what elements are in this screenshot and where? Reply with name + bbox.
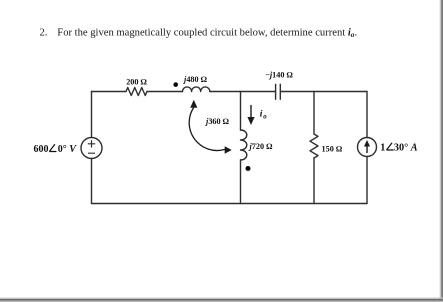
label 1 angle 30 A source value <box>380 142 417 153</box>
left branch lower wire <box>91 159 93 204</box>
right branch upper wire <box>366 92 368 138</box>
wire capacitor to top-right <box>281 91 368 93</box>
svg-text:For the given magnetically cou: For the given magnetically coupled circu… <box>57 27 357 39</box>
150 ohm branch upper wire <box>313 92 315 135</box>
page bottom border shadow <box>0 298 443 299</box>
left branch upper wire <box>91 92 93 138</box>
mutual coupling curved arrow j360 <box>189 100 232 154</box>
svg-text:j720 Ω: j720 Ω <box>248 142 274 151</box>
page right border shadow <box>440 0 441 302</box>
current io arrow <box>247 105 254 125</box>
resistor R 200ohm <box>126 88 147 96</box>
svg-text:−j140 Ω: −j140 Ω <box>265 71 293 80</box>
inductor j720 <box>241 130 247 160</box>
svg-text:1: 1 <box>380 142 385 153</box>
svg-text:2.: 2. <box>40 27 48 38</box>
middle branch lower wire <box>240 160 242 204</box>
svg-text:150 Ω: 150 Ω <box>322 145 343 154</box>
voltage source plus-minus signs <box>88 140 95 153</box>
middle branch upper wire <box>240 92 242 131</box>
voltage source Vs circle <box>81 138 102 159</box>
problem statement text <box>40 27 358 39</box>
current source Is circle <box>358 138 377 157</box>
coupling dot near j720 <box>246 166 251 171</box>
capacitor -j140 plates <box>276 84 281 99</box>
150 ohm branch lower wire <box>313 158 315 204</box>
svg-text:o: o <box>263 114 267 121</box>
resistor 150 ohm <box>310 134 318 158</box>
inductor j480 <box>183 87 210 92</box>
wire inductor to capacitor <box>210 91 276 93</box>
svg-text:j360 Ω: j360 Ω <box>204 117 230 126</box>
wire top-left to resistor <box>92 91 127 93</box>
right branch lower wire <box>366 157 368 204</box>
svg-text:200 Ω: 200 Ω <box>126 78 147 87</box>
coupling dot near j480 <box>173 82 178 87</box>
wire resistor to inductor <box>147 91 183 93</box>
bottom wire <box>92 203 368 205</box>
svg-text:0° V: 0° V <box>58 144 78 155</box>
label 600 angle 0 V source value <box>34 144 78 155</box>
svg-text:600: 600 <box>34 144 49 155</box>
svg-text:30° A: 30° A <box>394 142 418 153</box>
svg-text:j480 Ω: j480 Ω <box>182 75 208 84</box>
current source arrow <box>364 140 370 153</box>
